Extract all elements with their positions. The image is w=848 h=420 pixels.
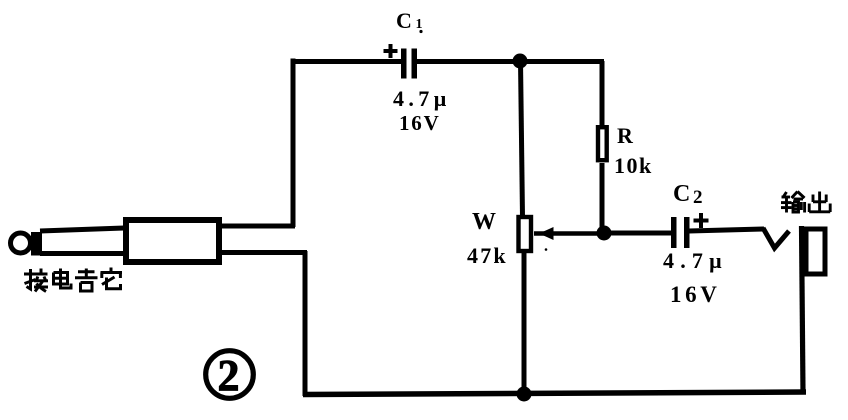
svg-text:1: 1 [416,17,423,32]
wire top rail right segment [415,59,604,64]
svg-text:10k: 10k [614,153,653,178]
svg-text:4.7μ: 4.7μ [663,248,728,273]
wire middle to C2 [604,231,672,236]
output jack pole [802,226,804,393]
output jack body [806,229,825,274]
svg-text:2: 2 [693,187,703,208]
input plug body [126,220,219,262]
label 输出 [781,192,830,213]
wire from plug sleeve to lower vertical [219,250,307,255]
wire W branch upper [521,61,523,217]
wire R branch lower [600,163,605,233]
wire W branch lower [522,251,527,393]
svg-text:R: R [617,123,634,148]
junction dot bottom [517,387,532,402]
input plug shaft [40,228,124,254]
capacitor C1 [401,49,417,79]
input plug tip circle [11,233,31,253]
input plug neck [31,232,42,256]
C1 plus polarity mark [384,44,398,58]
svg-text:47k: 47k [467,243,508,268]
wire left vertical lower [303,251,308,396]
node A junction dot top [513,54,528,69]
wire R branch upper [600,61,605,126]
junction dot middle [597,226,612,241]
potentiometer W body [519,217,532,251]
svg-text:C: C [673,181,690,207]
wire left vertical upper [291,59,296,228]
wire bottom rail [303,392,806,395]
figure number circled 2 [206,351,254,400]
wire top rail left segment [291,59,403,64]
wire from plug tip to left vertical [219,224,295,229]
potentiometer W wiper arrow [534,227,606,240]
resistor R body [598,127,607,160]
capacitor C2 [671,217,690,248]
svg-text:C: C [396,8,412,33]
svg-text:16V: 16V [399,111,441,135]
output plug tip V mark [763,228,789,248]
C2 plus polarity mark [694,213,709,228]
wire C2 to output [689,229,764,231]
svg-text:4.7μ: 4.7μ [393,86,451,111]
scan speck below wiper wire [545,248,548,251]
svg-text:16V: 16V [670,282,720,307]
scan speck near C1 label [419,30,422,33]
label 接电吉它 [24,268,122,292]
svg-text:2: 2 [218,351,240,400]
svg-text:W: W [472,209,496,235]
